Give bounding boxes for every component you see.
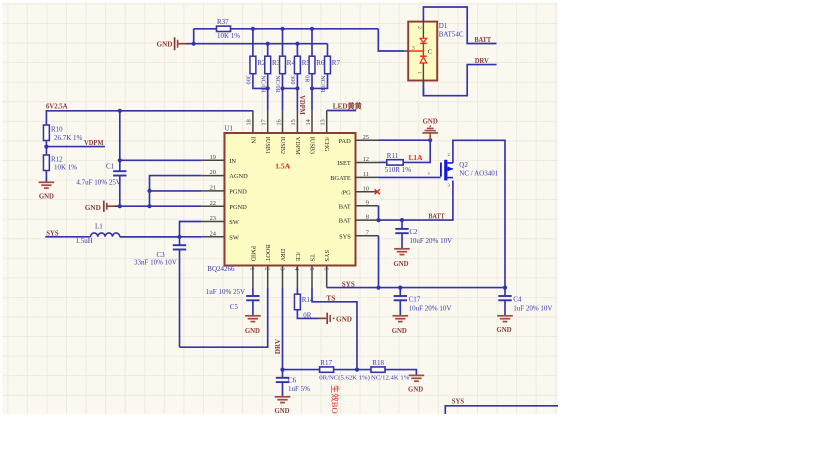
wire rail1 R37 to D1 drop bbox=[231, 28, 379, 30]
svg-text:26.7K 1%: 26.7K 1% bbox=[54, 134, 83, 142]
wire R12 to ground bbox=[45, 171, 47, 183]
svg-text:IUSB3: IUSB3 bbox=[308, 137, 315, 154]
node SYS-C4 junction bbox=[503, 286, 507, 290]
wire SW pin24 bbox=[120, 236, 202, 238]
capacitor C2 bbox=[401, 220, 403, 229]
svg-text:R18: R18 bbox=[372, 359, 384, 367]
svg-text:NC/0R: NC/0R bbox=[259, 75, 266, 93]
svg-text:21: 21 bbox=[210, 185, 216, 192]
svg-text:/CHG: /CHG bbox=[323, 137, 330, 152]
svg-text:GND: GND bbox=[423, 118, 438, 125]
svg-text:GND: GND bbox=[408, 386, 423, 393]
svg-text:1: 1 bbox=[249, 267, 256, 270]
svg-text:1uF 5%: 1uF 5% bbox=[288, 385, 310, 393]
node DRV-C6-R17 junction bbox=[280, 368, 284, 372]
wire R6 line down to pin14 bbox=[311, 74, 313, 111]
wire SYS pin7 drop bbox=[378, 236, 380, 288]
svg-text:10uF 20% 10V: 10uF 20% 10V bbox=[409, 304, 452, 312]
pin 23 SW (left) bbox=[202, 221, 225, 223]
wire PGND pin21 bbox=[150, 190, 202, 192]
pin 1 PMID (bottom) bbox=[252, 266, 254, 288]
svg-text:DRV: DRV bbox=[274, 338, 282, 354]
svg-text:GND: GND bbox=[393, 261, 408, 268]
svg-text:3: 3 bbox=[278, 267, 285, 270]
wire TS pin5 route bbox=[312, 288, 357, 370]
svg-text:AGND: AGND bbox=[229, 173, 248, 180]
resistor R2 bbox=[252, 29, 254, 56]
diode D1 BAT54C body bbox=[408, 22, 437, 81]
node C2 junction bbox=[400, 218, 404, 222]
node C1-IN junction bbox=[118, 158, 122, 162]
ground GND (below C6) bbox=[275, 396, 291, 398]
svg-text:1uF 20% 10V: 1uF 20% 10V bbox=[513, 304, 552, 312]
svg-text:3: 3 bbox=[412, 46, 415, 52]
IC U1 BQ24266 body bbox=[225, 133, 356, 266]
svg-text:C: C bbox=[428, 49, 433, 56]
svg-text:R37: R37 bbox=[217, 18, 229, 26]
svg-text:13: 13 bbox=[320, 119, 327, 125]
capacitor C4 bbox=[504, 288, 506, 296]
svg-text:6: 6 bbox=[323, 267, 330, 270]
svg-text:PAD: PAD bbox=[339, 138, 352, 145]
node 6V-C1 junction bbox=[118, 109, 122, 113]
svg-text:R17: R17 bbox=[320, 359, 332, 367]
svg-text:6V2.5A: 6V2.5A bbox=[46, 102, 68, 110]
svg-text:2: 2 bbox=[416, 26, 422, 29]
ground GND (below C17) bbox=[393, 315, 409, 317]
pin 12 ISET (right) bbox=[356, 162, 379, 164]
svg-text:10K 1%: 10K 1% bbox=[54, 164, 77, 172]
svg-text:NC/12.4K 1%: NC/12.4K 1% bbox=[371, 374, 410, 381]
resistor R12 bbox=[43, 155, 49, 171]
wire DRV stub bbox=[423, 65, 496, 96]
svg-text:300: 300 bbox=[289, 75, 296, 84]
node VDPM stub junction bbox=[44, 145, 48, 149]
ground GND (below C4) bbox=[497, 315, 513, 317]
svg-text:BATT: BATT bbox=[429, 212, 445, 220]
svg-text:GND: GND bbox=[274, 408, 289, 415]
wire BAT pin9 jog down bbox=[378, 206, 380, 220]
pin 17 IUSB1 (top) bbox=[267, 111, 269, 133]
wire C3 to BOOT pin2 bbox=[180, 288, 268, 348]
ground GND (below C2) bbox=[394, 248, 410, 250]
pin 3 DRV (bottom) bbox=[282, 266, 284, 288]
node junction R37 branch bbox=[192, 42, 196, 46]
resistor R14 on /CE bbox=[296, 288, 298, 295]
pin 24 SW (left) bbox=[202, 236, 225, 238]
svg-text:19: 19 bbox=[210, 154, 216, 161]
inductor L1 bbox=[91, 233, 120, 237]
svg-text:510R 1%: 510R 1% bbox=[385, 166, 411, 174]
resistor R3 bbox=[267, 44, 269, 57]
node SYS-C17 junction bbox=[398, 286, 402, 290]
svg-text:14: 14 bbox=[305, 119, 312, 125]
wire IN pin19 bbox=[120, 159, 202, 161]
svg-text:BAT: BAT bbox=[339, 203, 351, 210]
svg-text:/CE: /CE bbox=[294, 252, 301, 262]
svg-text:R10: R10 bbox=[51, 125, 63, 133]
svg-text:BQ24266: BQ24266 bbox=[207, 265, 235, 273]
wire D1 pin1 bottom stub bbox=[422, 81, 424, 89]
svg-text:GND: GND bbox=[245, 328, 260, 335]
node rail2-R5 bbox=[295, 42, 299, 46]
svg-text:C2: C2 bbox=[409, 228, 418, 236]
node BAT junction bbox=[376, 218, 380, 222]
svg-text:NC/0R: NC/0R bbox=[274, 75, 281, 93]
svg-text:10: 10 bbox=[363, 185, 369, 192]
svg-text:Q2: Q2 bbox=[459, 161, 468, 169]
svg-text:12: 12 bbox=[363, 156, 369, 163]
node C1-GND junction bbox=[118, 204, 122, 208]
pin 16 IUSB2 (top) bbox=[282, 111, 284, 133]
pin 19 IN (left) bbox=[202, 159, 225, 161]
node rail1-R2 bbox=[251, 27, 255, 31]
svg-text:C1: C1 bbox=[106, 163, 115, 171]
svg-text:GND: GND bbox=[85, 204, 101, 212]
svg-text:IN: IN bbox=[249, 137, 256, 144]
pin 22 PGND (left) bbox=[202, 205, 225, 207]
svg-text:SYS: SYS bbox=[323, 250, 330, 262]
svg-text:1uF 10% 25V: 1uF 10% 25V bbox=[206, 288, 245, 296]
pin 9 BAT (right) bbox=[356, 205, 379, 207]
svg-text:C6: C6 bbox=[288, 376, 297, 384]
wire GND rail to pin22 bbox=[115, 205, 202, 207]
wire SYS rail bbox=[327, 287, 505, 289]
svg-text:0R: 0R bbox=[304, 75, 311, 83]
svg-text:C4: C4 bbox=[513, 295, 522, 303]
capacitor C1 bbox=[119, 111, 121, 171]
svg-text:DRV: DRV bbox=[279, 249, 286, 262]
svg-text:2: 2 bbox=[264, 267, 271, 270]
svg-text:8: 8 bbox=[366, 214, 369, 221]
svg-text:1: 1 bbox=[416, 71, 422, 74]
wire GND node down to R11 bbox=[404, 140, 430, 162]
node PAD-GND junction bbox=[428, 138, 432, 142]
power port GND lead (top left) bbox=[178, 43, 187, 45]
wire BAT pin8 to Q2 source bbox=[379, 181, 453, 221]
capacitor C3 bbox=[179, 237, 181, 245]
svg-text:25: 25 bbox=[363, 134, 369, 141]
svg-text:TS: TS bbox=[326, 294, 335, 302]
svg-text:11: 11 bbox=[363, 171, 369, 178]
svg-text:L1: L1 bbox=[95, 222, 103, 230]
wire SYS bottom bbox=[445, 406, 558, 414]
wire SW pin23 route bbox=[180, 222, 202, 237]
svg-text:SW: SW bbox=[229, 219, 240, 226]
svg-text:BGATE: BGATE bbox=[330, 175, 351, 182]
pin 6 SYS (bottom) bbox=[326, 266, 328, 288]
svg-text:C5: C5 bbox=[230, 303, 239, 311]
svg-text:22: 22 bbox=[210, 200, 216, 207]
resistor R11 bbox=[379, 161, 387, 163]
svg-text:SW: SW bbox=[229, 234, 240, 241]
svg-text:BAT54C: BAT54C bbox=[439, 30, 464, 38]
wire Q2 drain up and over bbox=[453, 140, 505, 287]
pin 13 /CHG (top) bbox=[326, 111, 328, 133]
svg-text:PGND: PGND bbox=[229, 189, 247, 196]
wire PGND drop bbox=[149, 191, 151, 206]
wire rail2 GND to resistor tops bbox=[187, 43, 328, 45]
wire R5 bottom jog to R4 line bbox=[283, 74, 298, 89]
node rail1-R6 bbox=[310, 27, 314, 31]
node TS-R17-R18 junction bbox=[355, 368, 359, 372]
pin 15 VDPM (top) bbox=[296, 111, 298, 133]
svg-text:IN: IN bbox=[229, 158, 236, 165]
wire R37 branch vertical bbox=[193, 29, 195, 44]
svg-text:GND: GND bbox=[496, 327, 511, 334]
resistor R5 bbox=[296, 44, 298, 57]
svg-text:18: 18 bbox=[246, 119, 253, 125]
wire PAD to GND node bbox=[379, 139, 431, 141]
node R2-R3 junction bbox=[266, 86, 270, 90]
capacitor C17 bbox=[399, 288, 401, 296]
svg-text:16: 16 bbox=[275, 119, 282, 125]
node AGND-PGND junction bbox=[147, 189, 151, 193]
pin 21 PGND (left) bbox=[202, 190, 225, 192]
svg-text:10uF 20% 10V: 10uF 20% 10V bbox=[409, 237, 452, 245]
svg-text:NC / AO3401: NC / AO3401 bbox=[459, 170, 498, 178]
node R5 junction bbox=[295, 86, 299, 90]
pin 8 BAT (right) bbox=[356, 219, 379, 221]
pin 7 SYS (right) bbox=[356, 235, 379, 237]
svg-text:BATT: BATT bbox=[475, 36, 492, 44]
node rail1-R4 bbox=[280, 27, 284, 31]
svg-text:R6: R6 bbox=[316, 59, 325, 67]
wire VDPM stub bbox=[46, 146, 105, 148]
wire AGND pin20 route bbox=[150, 176, 202, 191]
node PGND-GND junction bbox=[147, 204, 151, 208]
svg-text:VDPM: VDPM bbox=[294, 137, 301, 155]
svg-text:1.5A: 1.5A bbox=[275, 162, 290, 171]
power port GND (right of R14) bbox=[318, 317, 326, 319]
svg-text:23: 23 bbox=[210, 215, 216, 222]
ground GND (below R12) bbox=[39, 181, 55, 183]
svg-text:15: 15 bbox=[290, 119, 297, 125]
svg-text:SYS: SYS bbox=[452, 398, 464, 406]
svg-text:LED黄黄: LED黄黄 bbox=[333, 102, 363, 111]
pin 18 IN (top) bbox=[252, 111, 254, 133]
resistor R4 bbox=[282, 29, 284, 56]
node SYS pin7 junction bbox=[376, 286, 380, 290]
wire SYS to L1 bbox=[45, 236, 90, 238]
pin 2 BOOT (bottom) bbox=[267, 266, 269, 288]
ground GND (right of R18) bbox=[409, 374, 425, 376]
wire BGATE to Q2 gate bbox=[379, 176, 441, 178]
svg-text:PMID: PMID bbox=[249, 246, 256, 262]
svg-text:0R/NC(5.62K 1%): 0R/NC(5.62K 1%) bbox=[319, 374, 370, 381]
svg-text:GND: GND bbox=[392, 328, 407, 335]
pin 20 AGND (left) bbox=[202, 175, 225, 177]
svg-text:VDPM: VDPM bbox=[84, 139, 104, 147]
svg-text:R7: R7 bbox=[332, 59, 341, 67]
resistor R10 bbox=[43, 125, 49, 141]
node R4-R5 junction bbox=[280, 86, 284, 90]
wire R18 to ground bbox=[385, 370, 416, 376]
wire rail1 down to D1 pin3 bbox=[378, 29, 404, 51]
svg-text:NC/0R: NC/0R bbox=[319, 75, 326, 93]
capacitor C5 bbox=[252, 288, 254, 296]
svg-text:SYS: SYS bbox=[342, 280, 355, 288]
wire R3 line down to pin17 bbox=[267, 74, 269, 111]
pin 14 IUSB3 (top) bbox=[311, 111, 313, 133]
svg-text:TS: TS bbox=[308, 254, 315, 262]
wire DRV pin3 drop bbox=[282, 288, 284, 370]
svg-text:5: 5 bbox=[308, 267, 315, 270]
wire R17 to R18 bbox=[334, 369, 371, 371]
svg-text:4.7uF 10% 25V: 4.7uF 10% 25V bbox=[76, 179, 121, 187]
wire D1 pin2 top route to BATT bbox=[423, 7, 496, 44]
svg-text:GND: GND bbox=[39, 194, 54, 201]
svg-text:BAT: BAT bbox=[339, 218, 351, 225]
wire 6V rail to pin18 bbox=[46, 111, 253, 125]
node SW-C3 junction bbox=[177, 235, 181, 239]
svg-text:/PG: /PG bbox=[341, 189, 351, 196]
wire R7 bottom jog to R6 line bbox=[312, 74, 328, 89]
svg-text:33nF 10% 10V: 33nF 10% 10V bbox=[134, 258, 177, 266]
svg-text:17: 17 bbox=[261, 119, 268, 125]
wire rail1 left segment bbox=[194, 28, 217, 30]
resistor R7 bbox=[327, 44, 329, 57]
svg-text:IUSB2: IUSB2 bbox=[279, 137, 286, 154]
wire /CHG stub to LED label bbox=[327, 110, 357, 112]
svg-text:VDPM: VDPM bbox=[298, 95, 306, 115]
svg-text:10K 1%: 10K 1% bbox=[217, 32, 240, 40]
pin 10 /PG (right) bbox=[356, 191, 379, 193]
node rail2-R3 bbox=[266, 42, 270, 46]
pin 4 /CE (bottom) bbox=[296, 266, 298, 288]
wire R4 line down to pin16 bbox=[282, 74, 284, 111]
capacitor C6 bbox=[282, 370, 284, 378]
resistor R18 bbox=[371, 367, 385, 372]
svg-text:R11: R11 bbox=[387, 152, 399, 160]
svg-text:300: 300 bbox=[245, 75, 252, 84]
pin 5 TS (bottom) bbox=[311, 266, 313, 288]
wire R10 to R12 bbox=[45, 141, 47, 156]
resistor R37 bbox=[217, 26, 231, 31]
svg-text:4: 4 bbox=[293, 267, 300, 270]
svg-text:24: 24 bbox=[210, 230, 217, 237]
svg-text:D1: D1 bbox=[439, 22, 448, 30]
pin 11 BGATE (right) bbox=[356, 176, 379, 178]
resistor R17 bbox=[320, 367, 334, 372]
svg-text:ISET: ISET bbox=[337, 160, 351, 167]
node R6-R7 junction bbox=[310, 86, 314, 90]
wire R14 to GND port bbox=[297, 310, 318, 319]
power port GND lead (middle left) bbox=[108, 205, 116, 207]
svg-text:L1A: L1A bbox=[409, 153, 424, 162]
wire R5 line down to pin15 (VDPM) bbox=[296, 88, 298, 110]
wire D1 pin3 left bbox=[404, 50, 408, 52]
svg-text:BOOT: BOOT bbox=[264, 245, 271, 262]
wire L1 to SW junction bbox=[120, 236, 180, 238]
wire R2 bottom jog to R3 line bbox=[253, 74, 268, 89]
svg-text:R12: R12 bbox=[51, 155, 63, 163]
transistor Q2 PMOS bbox=[440, 163, 442, 177]
resistor R6 bbox=[311, 29, 313, 56]
diode D1 internals bbox=[422, 22, 424, 39]
no-connect cross at /PG pin 10 bbox=[375, 189, 380, 194]
svg-text:U1: U1 bbox=[225, 125, 234, 133]
svg-text:GND: GND bbox=[336, 315, 352, 323]
svg-text:SYS: SYS bbox=[339, 233, 351, 240]
ground GND (below C5) bbox=[245, 315, 261, 317]
svg-text:20: 20 bbox=[210, 169, 216, 176]
wire junction to R17 bbox=[283, 369, 320, 371]
svg-text:1.5uH: 1.5uH bbox=[76, 237, 93, 245]
svg-text:C17: C17 bbox=[409, 295, 421, 303]
svg-text:GND: GND bbox=[157, 41, 173, 49]
svg-text:IUSB1: IUSB1 bbox=[264, 137, 271, 154]
svg-text:PGND: PGND bbox=[229, 204, 247, 211]
pin 25 PAD (right) bbox=[356, 139, 379, 141]
svg-text:9: 9 bbox=[366, 199, 369, 206]
